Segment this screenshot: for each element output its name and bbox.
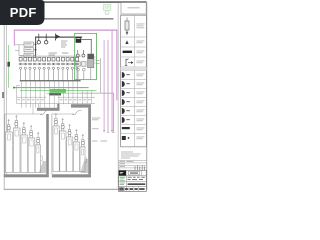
tower U3 xyxy=(67,124,75,172)
logo cell xyxy=(119,171,126,176)
aux device blocks xyxy=(76,62,86,67)
wire labels xyxy=(92,60,107,141)
breaker squares row xyxy=(19,57,78,61)
left margin tick xyxy=(2,92,4,98)
riser box 2 xyxy=(52,108,91,178)
inner frame top line xyxy=(6,18,114,20)
drawing title bar xyxy=(128,183,146,185)
CT cabinet stubs xyxy=(24,42,33,57)
feeder conduit B xyxy=(71,104,91,107)
bus label text xyxy=(49,41,69,56)
main bus xyxy=(35,37,82,38)
tower T2 xyxy=(13,115,21,173)
blue conductor xyxy=(81,39,92,54)
pink feeder left drop xyxy=(14,29,15,45)
highlighted circuit green main xyxy=(14,86,89,89)
service drop vertical xyxy=(34,37,37,61)
gray tie wire horizontal xyxy=(78,92,114,95)
main meter block xyxy=(76,37,82,43)
sheet left frame inner xyxy=(5,24,8,174)
riser box 1 xyxy=(4,110,50,177)
revision table grid xyxy=(119,160,146,170)
box 1 right wall xyxy=(46,114,49,174)
tower U5 xyxy=(80,134,87,172)
legend column divider xyxy=(134,15,136,147)
highlighted circuit green 2 xyxy=(20,89,96,92)
dark label bar xyxy=(49,93,61,95)
box 2 leader curve xyxy=(72,110,82,115)
legend section divider shading xyxy=(121,67,147,71)
highlighted circuit green 3 xyxy=(46,92,80,95)
legend row lines xyxy=(121,37,147,134)
enclosure drop wires xyxy=(78,68,91,80)
box 2 outline xyxy=(52,114,74,174)
purple branch wire 1 xyxy=(103,40,106,132)
branch circuit wires xyxy=(21,69,77,80)
box 1 floor xyxy=(4,174,49,177)
branch breakers row xyxy=(19,57,79,80)
legend receptacle symbols rows xyxy=(122,72,130,140)
junction dots xyxy=(35,43,37,45)
pink feeder top wire xyxy=(14,29,118,31)
revision table text xyxy=(120,161,134,167)
box 1 ground hatch xyxy=(39,162,46,172)
box 2 right wall xyxy=(88,108,91,175)
purple branch wire 2 xyxy=(107,40,110,132)
feeder conduit A xyxy=(37,104,60,111)
title block xyxy=(119,170,147,191)
panel bottom bus xyxy=(20,80,81,81)
legend small letter marks xyxy=(126,74,129,120)
approval stamp xyxy=(103,4,110,14)
title block bottom dividers xyxy=(124,187,138,192)
legend sym fused switch xyxy=(125,18,129,35)
aux switch S2 xyxy=(82,50,85,57)
load table text xyxy=(18,98,91,101)
tower T1 xyxy=(6,119,14,173)
box 1 leader curve xyxy=(40,110,50,115)
legend divider vertical xyxy=(117,3,120,190)
aux switch S1 xyxy=(76,50,79,57)
main schematic xyxy=(2,29,117,141)
panel top rail xyxy=(20,55,81,58)
legend table xyxy=(121,3,147,147)
revision table xyxy=(119,160,146,170)
title block bottom fields xyxy=(119,187,144,190)
legend sym switch xyxy=(125,59,129,66)
tower T4 xyxy=(28,125,36,173)
sheet bottom frame xyxy=(4,189,147,190)
legend description text lines xyxy=(136,24,144,140)
box 2 floor xyxy=(52,174,91,177)
transformer stack xyxy=(88,54,94,68)
box 1 outline xyxy=(5,114,42,174)
breaker lower terminals xyxy=(20,67,79,69)
sheet left frame outer xyxy=(3,24,6,190)
tower U2 xyxy=(60,118,68,172)
gray riser wire 1 xyxy=(99,58,102,93)
tower U1 xyxy=(53,113,61,172)
gray riser wire 2 xyxy=(112,93,115,133)
legend outer border xyxy=(121,15,147,147)
green junction dot xyxy=(13,87,15,89)
revision signature marks xyxy=(135,165,145,170)
title block data text xyxy=(128,177,145,180)
green meter device xyxy=(7,62,10,67)
green riser left xyxy=(7,45,10,88)
pink feeder right drop inner xyxy=(112,29,113,132)
green highlight cell xyxy=(50,89,66,93)
architect cell green text xyxy=(120,176,126,179)
load table xyxy=(17,81,95,114)
legend sym lamp xyxy=(125,40,128,44)
pink feeder right drop outer xyxy=(116,29,117,100)
load table grid xyxy=(17,81,95,114)
PDF badge xyxy=(0,0,45,25)
breaker flag F1 xyxy=(56,34,61,41)
box 2 ground hatch xyxy=(81,160,88,172)
legend header cell xyxy=(121,3,146,14)
svg-text:PDF: PDF xyxy=(10,5,37,20)
project label cell xyxy=(128,171,140,175)
tower T3 xyxy=(21,122,29,173)
tower U4 xyxy=(73,129,81,172)
sheet top edge xyxy=(44,1,147,3)
sheet right frame xyxy=(145,2,148,190)
wire end ticks xyxy=(103,131,115,133)
stub wires xyxy=(15,44,36,55)
legend sym bus bar xyxy=(123,51,132,53)
disconnect D1 xyxy=(37,34,40,44)
service green enclosure xyxy=(75,33,97,79)
tower T5 xyxy=(35,132,42,173)
breaker terminal circles xyxy=(19,63,79,65)
legend sym feeder arrow xyxy=(122,61,134,64)
disconnect D2 xyxy=(45,34,48,44)
notes text xyxy=(121,152,141,159)
